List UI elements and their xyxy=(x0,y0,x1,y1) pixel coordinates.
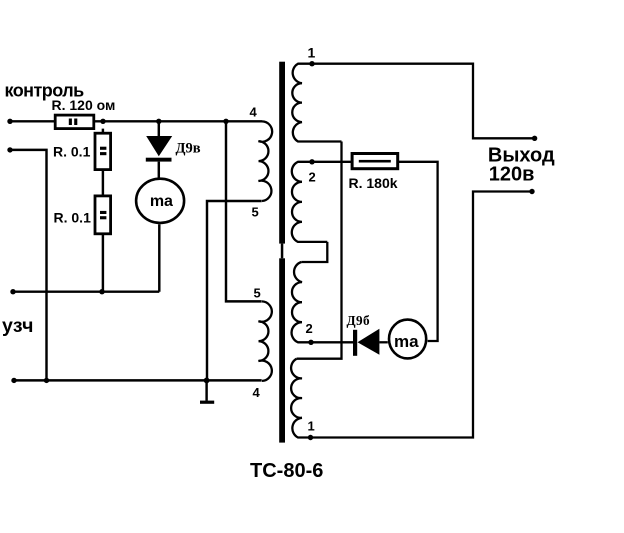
node terminal kontrol-2 xyxy=(7,147,12,152)
svg-text:Д9в: Д9в xyxy=(176,140,201,156)
svg-text:1: 1 xyxy=(308,418,315,433)
svg-text:Д9б: Д9б xyxy=(347,313,370,328)
wire R0.1 chain vertical xyxy=(102,129,104,292)
wire C terminal to diode xyxy=(311,341,353,343)
resistor R3 0.1 box xyxy=(95,196,111,234)
meter ma right circle xyxy=(389,320,426,359)
node winding D bottom xyxy=(308,435,313,440)
diode D9b triangle xyxy=(358,329,380,355)
node junction R01-bottom xyxy=(99,289,104,294)
resistor R2 0.1 box xyxy=(95,133,111,169)
svg-text:1: 1 xyxy=(308,45,316,61)
wire diode D9v branch xyxy=(158,121,160,178)
transformer core upper xyxy=(279,62,285,244)
resistor R4 180k box xyxy=(352,154,398,169)
winding right-D 1 xyxy=(291,359,310,438)
meter ma left circle xyxy=(136,179,184,223)
diode D9b cathode bar xyxy=(353,330,357,356)
svg-text:ma: ma xyxy=(394,332,419,351)
node winding B top xyxy=(309,159,314,164)
svg-text:R. 0.1: R. 0.1 xyxy=(54,209,92,225)
resistor R1 120om box xyxy=(55,115,94,129)
wire B to R180k xyxy=(312,161,352,163)
node junction to lower winding xyxy=(223,119,228,124)
svg-text:2: 2 xyxy=(309,170,316,185)
svg-text:2: 2 xyxy=(306,321,313,336)
diode D9v triangle xyxy=(146,136,172,156)
diode D9v cathode bar xyxy=(146,158,172,162)
node output terminal 2 xyxy=(529,189,534,194)
wire R180k right to ma-right xyxy=(398,162,438,341)
wire output bottom rail xyxy=(311,192,533,438)
winding right-A 1 xyxy=(292,64,341,142)
svg-text:4: 4 xyxy=(253,385,261,400)
ground bar xyxy=(200,401,214,404)
node winding A top xyxy=(309,61,314,66)
node junction R120-right xyxy=(100,119,105,124)
svg-text:ma: ma xyxy=(150,193,173,210)
wire winding5-upper to bottom rail xyxy=(207,201,262,380)
ground stub xyxy=(205,380,207,400)
wire B-bottom to C-top jumper xyxy=(301,242,327,262)
svg-text:R. 120 ом: R. 120 ом xyxy=(52,97,116,113)
node junction bottomrail-left xyxy=(44,378,49,383)
node junction ground xyxy=(204,378,210,384)
wire output top xyxy=(312,64,535,139)
resistor R3 marks = xyxy=(100,211,106,214)
winding left-lower 5-4 xyxy=(259,301,272,381)
resistor R4 mark xyxy=(359,160,391,163)
svg-text:4: 4 xyxy=(250,105,258,120)
node terminal kontrol-1 xyxy=(7,119,12,124)
svg-text:узч: узч xyxy=(2,315,34,337)
transformer core thin middle xyxy=(281,244,284,259)
wire kontrol terminal2 to down rail xyxy=(10,150,47,381)
transformer core lower xyxy=(279,258,285,442)
svg-text:R. 0.1: R. 0.1 xyxy=(53,143,91,159)
wire top rail left xyxy=(10,120,262,122)
resistor R2 marks = xyxy=(100,147,106,150)
node output terminal 1 xyxy=(532,136,537,141)
node winding C bottom xyxy=(308,340,313,345)
winding left-upper 4-5 xyxy=(259,121,273,201)
wire ma-left bottom lead xyxy=(158,224,160,292)
wire bottom rail xyxy=(14,379,262,381)
wire diode to ma-right xyxy=(379,341,387,343)
node terminal uzch-2 xyxy=(11,378,16,383)
resistor R1 marks II xyxy=(69,119,72,126)
svg-text:120в: 120в xyxy=(489,164,535,186)
winding right-C 2 xyxy=(292,262,311,342)
svg-text:R. 180k: R. 180k xyxy=(349,175,398,191)
node junction diode-top xyxy=(156,119,161,124)
svg-text:ТС-80-6: ТС-80-6 xyxy=(250,460,323,482)
winding right-B 2 xyxy=(292,162,328,242)
wire A-bottom to D-top xyxy=(297,142,342,359)
svg-text:5: 5 xyxy=(254,286,261,301)
wire top rail to lower-left winding xyxy=(226,121,262,301)
wire UZCh upper xyxy=(13,290,159,292)
node terminal uzch-1 xyxy=(10,289,15,294)
svg-text:5: 5 xyxy=(252,205,259,220)
